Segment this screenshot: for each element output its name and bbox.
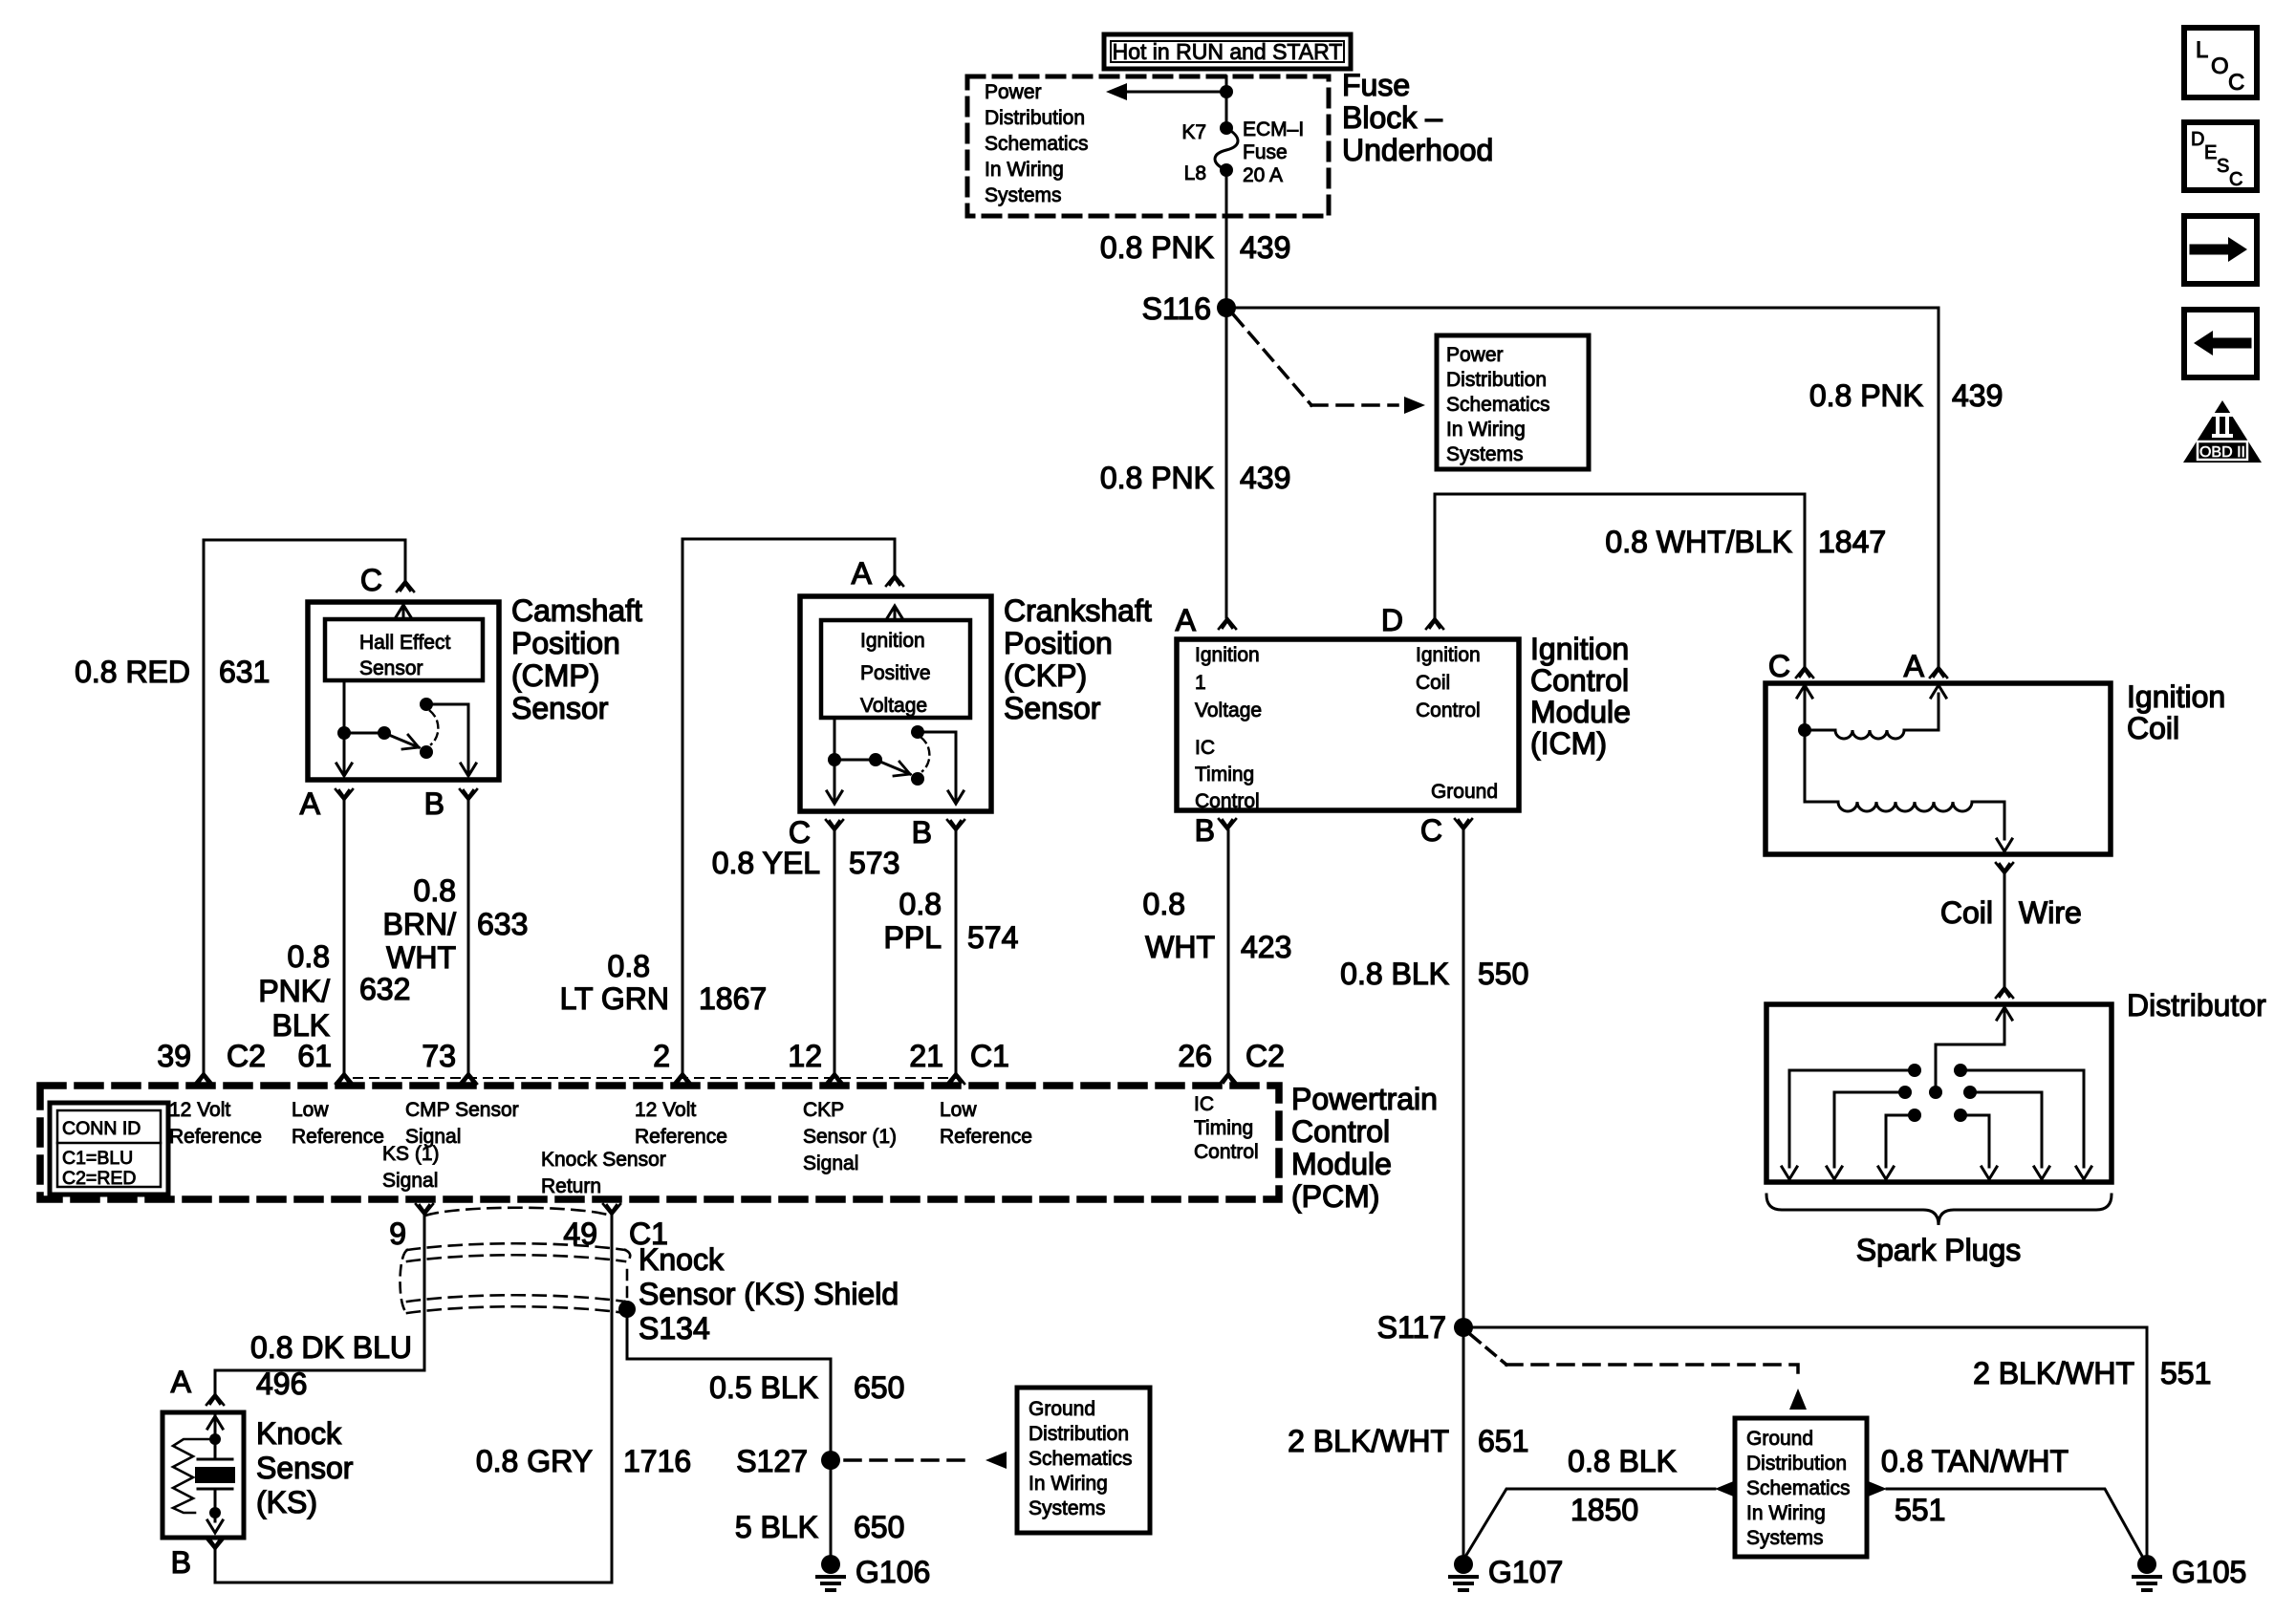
PCM pin 9 (389, 1204, 433, 1251)
svg-text:Distribution: Distribution (1746, 1453, 1847, 1475)
svg-text:Power: Power (985, 81, 1042, 103)
svg-text:KS (1): KS (1) (382, 1143, 440, 1165)
svg-text:Timing: Timing (1194, 1117, 1253, 1139)
wire: S117 to G105 (2 BLK/WHT 551) (1463, 1327, 2211, 1555)
CONN ID legend box (50, 1103, 168, 1195)
svg-text:Control: Control (1416, 700, 1481, 721)
PCM pin 12 (788, 1039, 843, 1084)
wire: PCM pin 9 to knock sensor pin A (0.8 DK BLU 496) (215, 1216, 424, 1401)
svg-text:(KS): (KS) (256, 1485, 317, 1519)
svg-text:G105: G105 (2172, 1555, 2246, 1589)
svg-text:0.8: 0.8 (1143, 887, 1185, 921)
PCM pin 61 (297, 1039, 353, 1084)
svg-text:C: C (2228, 70, 2244, 96)
splice S116 (1142, 291, 1236, 326)
svg-text:0.8: 0.8 (608, 949, 650, 983)
icon: DESC box (2184, 122, 2257, 190)
wire: S116 to ignition coil pin A (0.8 PNK 439) (1226, 308, 2003, 666)
wire: ICM pin B to PCM pin 26 (0.8 WHT 423) (1143, 830, 1292, 1072)
wire: CKP pin B to PCM pin 21 (0.8 PPL 574) (884, 831, 1019, 1072)
svg-text:C: C (1420, 813, 1442, 848)
svg-text:Coil: Coil (1416, 672, 1450, 694)
svg-text:OBD II: OBD II (2199, 444, 2245, 461)
svg-text:12 Volt: 12 Volt (169, 1099, 230, 1121)
svg-text:Control: Control (1194, 1141, 1259, 1163)
svg-text:61: 61 (297, 1039, 332, 1073)
svg-text:Ignition: Ignition (1416, 644, 1481, 666)
svg-text:Knock: Knock (256, 1416, 342, 1451)
pin A of CMP sensor (300, 786, 353, 821)
svg-text:CONN ID: CONN ID (62, 1118, 141, 1139)
pin B of CKP sensor (912, 815, 964, 850)
svg-text:Power: Power (1446, 344, 1504, 366)
wire: CMP pin B to PCM pin 73 (0.8 BRN/WHT 633) (383, 801, 529, 1072)
ICM internal labels (1195, 644, 1498, 812)
svg-text:0.8 PNK: 0.8 PNK (1100, 461, 1214, 495)
wire: arrow to power distribution (left) (1106, 83, 1221, 100)
spark plugs brace and label (1766, 1195, 2112, 1267)
CMP internal switch (336, 680, 476, 776)
svg-text:S134: S134 (639, 1311, 710, 1346)
svg-text:E: E (2204, 142, 2217, 163)
svg-text:Schematics: Schematics (1746, 1477, 1851, 1499)
svg-text:0.8 GRY: 0.8 GRY (476, 1444, 593, 1478)
svg-text:Ground: Ground (1431, 781, 1498, 803)
distributor rotor input (1929, 1004, 2012, 1099)
svg-text:Ignition: Ignition (1530, 632, 1629, 666)
svg-text:Crankshaft: Crankshaft (1004, 593, 1152, 628)
svg-text:650: 650 (854, 1370, 904, 1405)
wire: PCM pin 49 to knock sensor pin B (0.8 GRY 1716) (215, 1216, 691, 1583)
powertrain control module PCM dashed box (40, 1082, 1438, 1214)
pin D of ICM (1381, 603, 1443, 637)
svg-text:In Wiring: In Wiring (1746, 1502, 1826, 1524)
knock sensor internals (173, 1412, 235, 1533)
svg-text:632: 632 (359, 972, 410, 1006)
svg-text:631: 631 (219, 655, 270, 689)
svg-text:Low: Low (292, 1099, 329, 1121)
wire: S116 down to ICM pin A (0.8 PNK 439) (1100, 308, 1291, 617)
svg-text:Reference: Reference (292, 1126, 384, 1148)
svg-text:WHT: WHT (386, 940, 456, 975)
svg-text:A: A (300, 786, 321, 821)
svg-text:0.8: 0.8 (414, 873, 456, 908)
svg-text:Fuse: Fuse (1243, 141, 1288, 163)
svg-text:21: 21 (909, 1039, 943, 1073)
ignition coil box (1765, 679, 2225, 854)
svg-text:550: 550 (1478, 957, 1528, 991)
svg-text:0.8 YEL: 0.8 YEL (712, 846, 820, 880)
svg-text:Ignition: Ignition (1195, 644, 1260, 666)
svg-text:C1=BLU: C1=BLU (62, 1148, 133, 1169)
svg-text:PPL: PPL (884, 920, 942, 955)
svg-text:D: D (2191, 129, 2204, 150)
svg-text:Signal: Signal (803, 1152, 858, 1174)
svg-text:0.8 WHT/BLK: 0.8 WHT/BLK (1605, 525, 1792, 559)
PCM pin 49 C1 (563, 1204, 668, 1251)
svg-text:S117: S117 (1377, 1310, 1446, 1345)
PCM pin function labels (169, 1093, 1259, 1197)
svg-text:(CKP): (CKP) (1004, 658, 1087, 693)
svg-text:2 BLK/WHT: 2 BLK/WHT (1973, 1356, 2134, 1390)
svg-text:1716: 1716 (623, 1444, 691, 1478)
reference box: Ground Distribution (bottom) (1715, 1418, 1887, 1557)
pin C of CKP sensor (789, 815, 843, 850)
svg-text:Knock Sensor: Knock Sensor (541, 1149, 666, 1171)
icon: left arrow box (2184, 310, 2257, 377)
svg-text:Sensor: Sensor (359, 657, 423, 679)
PCM pin 73 (422, 1039, 477, 1084)
svg-text:C2: C2 (227, 1039, 266, 1073)
PCM pin 39 C2 (157, 1039, 266, 1084)
svg-text:12: 12 (788, 1039, 822, 1073)
svg-text:Reference: Reference (940, 1126, 1032, 1148)
svg-text:L8: L8 (1184, 162, 1206, 184)
pin C of ignition coil (1768, 649, 1813, 683)
PCM pin 2 (653, 1039, 691, 1084)
svg-text:Systems: Systems (1746, 1527, 1824, 1549)
pin C of CMP sensor (360, 563, 414, 597)
svg-text:Control: Control (1195, 790, 1260, 812)
dashed reference arrow from S117 (1471, 1335, 1807, 1410)
ignition control module ICM box (1177, 632, 1631, 810)
CKP internal arrow to inner box (887, 606, 902, 620)
svg-text:0.8 BLK: 0.8 BLK (1340, 957, 1449, 991)
PCM pin 26 C2 (1178, 1039, 1285, 1084)
svg-text:O: O (2211, 54, 2229, 79)
svg-text:Sensor (KS) Shield: Sensor (KS) Shield (639, 1277, 899, 1311)
svg-text:0.8 DK BLU: 0.8 DK BLU (250, 1330, 412, 1365)
svg-text:PNK/: PNK/ (258, 974, 330, 1008)
svg-text:Fuse: Fuse (1342, 68, 1410, 102)
pin B of knock sensor (171, 1539, 224, 1580)
svg-text:Spark Plugs: Spark Plugs (1856, 1233, 2022, 1267)
svg-text:A: A (1176, 603, 1197, 637)
distributor box (1766, 988, 2266, 1182)
wire: battery feed into fuse block (1225, 76, 1228, 125)
svg-text:Schematics: Schematics (985, 133, 1089, 155)
crankshaft position sensor CKP box (800, 593, 1152, 811)
svg-text:0.8 TAN/WHT: 0.8 TAN/WHT (1881, 1444, 2069, 1478)
svg-text:439: 439 (1240, 230, 1290, 265)
ground G106 (817, 1555, 930, 1590)
svg-text:Wire: Wire (2019, 895, 2082, 930)
knock sensor KS box (162, 1412, 354, 1538)
svg-text:20 A: 20 A (1243, 164, 1283, 186)
ground G107 (1450, 1555, 1563, 1590)
wire: G107 to ground distribution box (0.8 BLK 1850) (1465, 1444, 1715, 1557)
svg-text:L: L (2196, 37, 2208, 63)
svg-text:(CMP): (CMP) (511, 658, 599, 693)
svg-text:574: 574 (967, 920, 1018, 955)
svg-text:Reference: Reference (169, 1126, 262, 1148)
svg-text:Ground: Ground (1029, 1398, 1095, 1420)
svg-text:C: C (2229, 169, 2242, 190)
svg-text:Ignition: Ignition (2127, 679, 2225, 714)
svg-text:S127: S127 (736, 1444, 808, 1478)
wire: CMP pin A to PCM pin 61 (0.8 PNK/BLK 632) (258, 801, 410, 1072)
svg-text:S116: S116 (1142, 291, 1211, 326)
svg-text:Timing: Timing (1195, 764, 1254, 786)
svg-text:0.8: 0.8 (899, 887, 942, 921)
svg-text:Hot in RUN and START: Hot in RUN and START (1113, 39, 1343, 64)
svg-text:Systems: Systems (1029, 1497, 1106, 1519)
node: junction at fuse box feed (1220, 85, 1233, 98)
svg-text:C2: C2 (1245, 1039, 1285, 1073)
svg-text:5 BLK: 5 BLK (735, 1510, 818, 1544)
svg-text:Voltage: Voltage (860, 695, 927, 717)
wire: CKP pin C to PCM pin 12 (0.8 YEL 573) (712, 831, 900, 1072)
ignition coil secondary winding (1805, 730, 2012, 851)
svg-text:Schematics: Schematics (1029, 1448, 1133, 1470)
svg-text:Signal: Signal (382, 1170, 438, 1192)
svg-text:551: 551 (2160, 1356, 2211, 1390)
svg-text:Sensor: Sensor (1004, 691, 1101, 725)
CKP internal switch (827, 718, 964, 804)
fuse block dashed box: Fuse Block - Underhood (967, 68, 1493, 216)
svg-text:C: C (1768, 649, 1790, 683)
svg-text:Coil: Coil (2127, 711, 2179, 745)
svg-text:Underhood: Underhood (1342, 133, 1493, 167)
svg-text:CMP Sensor: CMP Sensor (405, 1099, 519, 1121)
svg-text:423: 423 (1241, 930, 1291, 964)
svg-text:650: 650 (854, 1510, 904, 1544)
svg-text:Hall Effect: Hall Effect (359, 632, 450, 654)
dashed reference arrow from S127 (845, 1452, 1007, 1469)
pin A of ICM (1176, 603, 1236, 637)
icon: LOC box (2184, 28, 2257, 97)
svg-text:651: 651 (1478, 1424, 1528, 1458)
svg-text:Sensor: Sensor (256, 1451, 354, 1485)
svg-text:In Wiring: In Wiring (985, 159, 1064, 181)
svg-text:A: A (1904, 649, 1925, 683)
svg-text:Position: Position (1004, 626, 1113, 660)
wire: S127 to G106 (5 BLK 650) (735, 1460, 905, 1555)
svg-text:A: A (852, 556, 873, 591)
svg-text:1847: 1847 (1818, 525, 1886, 559)
pin A of ignition coil (1904, 649, 1947, 683)
svg-text:BLK: BLK (272, 1008, 330, 1043)
CKP ignition positive voltage inner box (821, 620, 970, 718)
svg-text:0.5 BLK: 0.5 BLK (709, 1370, 818, 1405)
svg-text:0.8 PNK: 0.8 PNK (1809, 378, 1923, 413)
wire: S117 to G107 (2 BLK/WHT 651) (1288, 1327, 1528, 1555)
svg-text:Reference: Reference (635, 1126, 727, 1148)
svg-text:B: B (912, 815, 932, 850)
icon: OBD II triangle (2183, 400, 2262, 463)
svg-text:(ICM): (ICM) (1530, 726, 1607, 761)
svg-text:Distribution: Distribution (1446, 369, 1547, 391)
svg-text:S: S (2217, 156, 2229, 177)
svg-text:439: 439 (1240, 461, 1290, 495)
power feed box: Hot in RUN and START (1104, 34, 1351, 69)
splice S117 (1377, 1310, 1473, 1345)
svg-text:9: 9 (389, 1217, 406, 1251)
svg-text:Return: Return (541, 1175, 601, 1197)
dashed reference arrow from S116 (1234, 315, 1425, 414)
camshaft position sensor CMP box (308, 593, 642, 780)
wire: ICM pin D to ignition coil pin C (0.8 WHT/BLK 1847) (1435, 494, 1886, 666)
svg-text:C2=RED: C2=RED (62, 1168, 137, 1189)
svg-text:Coil: Coil (1940, 895, 1993, 930)
svg-text:Camshaft: Camshaft (511, 593, 642, 628)
svg-text:Control: Control (1530, 663, 1629, 698)
svg-text:1: 1 (1195, 672, 1206, 694)
svg-text:Distribution: Distribution (985, 107, 1085, 129)
svg-text:Powertrain: Powertrain (1291, 1082, 1438, 1116)
svg-text:B: B (1195, 813, 1215, 848)
PCM connector C1 thin dashed line (top) (354, 1077, 956, 1079)
svg-text:Voltage: Voltage (1195, 700, 1262, 721)
svg-text:A: A (171, 1365, 192, 1399)
svg-text:Sensor (1): Sensor (1) (803, 1126, 897, 1148)
pin C of ICM (1420, 813, 1472, 848)
knock sensor shield S134 dashed shield (401, 1208, 899, 1346)
svg-text:Schematics: Schematics (1446, 394, 1550, 416)
reference box: Ground Distribution (S127) (1017, 1388, 1150, 1533)
svg-text:B: B (424, 786, 444, 821)
svg-text:1867: 1867 (699, 981, 767, 1016)
svg-text:Systems: Systems (1446, 443, 1524, 465)
pin A of CKP sensor (852, 556, 903, 591)
svg-text:C: C (789, 815, 811, 850)
wire: PCM pin 39 to CMP pin C (0.8 RED 631) (75, 540, 405, 1072)
svg-text:Position: Position (511, 626, 620, 660)
svg-text:Low: Low (940, 1099, 977, 1121)
svg-text:IC: IC (1195, 737, 1215, 759)
svg-text:G106: G106 (856, 1555, 930, 1589)
svg-text:Distribution: Distribution (1029, 1423, 1129, 1445)
svg-text:C: C (360, 563, 382, 597)
svg-text:K7: K7 (1181, 121, 1206, 143)
svg-text:Systems: Systems (985, 184, 1062, 206)
svg-text:2: 2 (653, 1039, 670, 1073)
svg-text:Distributor: Distributor (2127, 988, 2266, 1023)
svg-text:1850: 1850 (1570, 1493, 1638, 1527)
CMP internal arrow to hall sensor (396, 605, 411, 619)
pin A of knock sensor (171, 1365, 224, 1405)
wire: ICM pin C to S117 (0.8 BLK 550) (1340, 830, 1528, 1327)
svg-text:Control: Control (1291, 1114, 1390, 1149)
svg-text:IC: IC (1194, 1093, 1214, 1115)
distributor cap contacts and wires to spark plug towers (1782, 1064, 2091, 1179)
svg-text:G107: G107 (1488, 1555, 1563, 1589)
svg-text:551: 551 (1895, 1493, 1945, 1527)
pin B of CMP sensor (424, 786, 477, 821)
wire: fuse output 0.8 PNK 439 to S116 (1100, 170, 1291, 308)
svg-text:B: B (171, 1545, 191, 1580)
svg-text:In Wiring: In Wiring (1446, 419, 1526, 441)
svg-text:12 Volt: 12 Volt (635, 1099, 696, 1121)
svg-text:0.8 BLK: 0.8 BLK (1568, 1444, 1677, 1478)
coil wire connector and label (1940, 863, 2082, 998)
svg-text:26: 26 (1178, 1039, 1212, 1073)
svg-text:(PCM): (PCM) (1291, 1179, 1379, 1214)
svg-text:0.8 RED: 0.8 RED (75, 655, 190, 689)
svg-text:D: D (1381, 603, 1403, 637)
PCM pin 21 C1 (909, 1039, 1009, 1084)
svg-text:573: 573 (849, 846, 899, 880)
svg-text:Positive: Positive (860, 662, 931, 684)
svg-text:Module: Module (1291, 1147, 1392, 1181)
svg-text:Sensor: Sensor (511, 691, 609, 725)
icon: right arrow box (2184, 216, 2257, 284)
svg-text:0.8: 0.8 (288, 939, 330, 974)
CMP hall effect sensor inner box (325, 619, 483, 680)
svg-text:439: 439 (1952, 378, 2003, 413)
wire: knock sensor return S134 branch to S127 (0.5 BLK 650) (627, 1309, 904, 1460)
fuse F: ECM-I Fuse 20 A (1181, 118, 1304, 186)
svg-text:2 BLK/WHT: 2 BLK/WHT (1288, 1424, 1449, 1458)
ground G105 (2134, 1555, 2246, 1590)
svg-text:39: 39 (157, 1039, 191, 1073)
svg-text:0.8 PNK: 0.8 PNK (1100, 230, 1214, 265)
svg-text:73: 73 (422, 1039, 456, 1073)
splice S127 (736, 1444, 840, 1478)
reference box: Power Distribution Schematics In Wiring Systems (1437, 335, 1589, 469)
wire: PCM pin 2 to CKP pin A (0.8 LT GRN 1867) (560, 539, 895, 1072)
ignition coil primary winding (1797, 683, 1946, 739)
svg-text:In Wiring: In Wiring (1029, 1473, 1108, 1495)
svg-text:Knock: Knock (639, 1242, 725, 1277)
svg-text:CKP: CKP (803, 1099, 844, 1121)
svg-text:ECM–I: ECM–I (1243, 118, 1304, 140)
pin B of ICM (1195, 813, 1236, 848)
wire: ground distribution box to G105 (0.8 TAN/WHT 551) (1881, 1444, 2143, 1558)
svg-text:BRN/: BRN/ (383, 907, 457, 941)
svg-text:Ignition: Ignition (860, 630, 925, 652)
svg-text:Module: Module (1530, 695, 1631, 729)
svg-text:WHT: WHT (1145, 930, 1215, 964)
svg-text:633: 633 (477, 907, 528, 941)
svg-text:Ground: Ground (1746, 1428, 1813, 1450)
svg-text:C1: C1 (970, 1039, 1009, 1073)
svg-text:496: 496 (256, 1367, 307, 1401)
svg-text:Block –: Block – (1342, 100, 1442, 135)
svg-text:LT GRN: LT GRN (560, 981, 669, 1016)
